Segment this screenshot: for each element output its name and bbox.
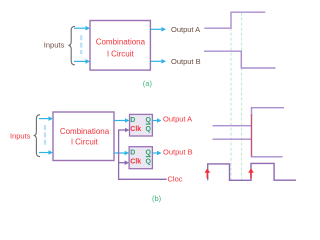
waveform output B (a) [204,51,276,68]
clock-edge marker dashed line 2 [241,13,243,181]
wire U2 to U4 D input [114,151,129,156]
waveform output A (b) [213,125,252,127]
wire input 1 (b) [39,116,53,121]
input brace (a) [68,26,75,65]
combinational circuit block U2 (b) [53,112,114,161]
svg-text:Inputs: Inputs [44,40,65,49]
combinational circuit block U1 (a) [90,21,150,71]
wire U2 to U3 D input [114,118,130,123]
svg-text:Inputs: Inputs [10,132,31,141]
wire input 1 (a) [74,26,90,31]
svg-text:Combinationa: Combinationa [96,38,146,47]
waveform output A (a) [204,12,265,28]
svg-text:Q: Q [146,149,152,156]
input brace (b) [34,115,40,157]
svg-text:Output A: Output A [163,114,192,123]
svg-text:(a): (a) [143,79,153,88]
wire clock to U3 Clk [118,128,130,133]
svg-text:l Circuit: l Circuit [107,49,134,58]
wire input 2 (a) [74,59,90,64]
svg-text:Clk: Clk [130,158,141,165]
svg-text:Cloc: Cloc [168,175,183,184]
wire U3 Q to output A [152,118,161,123]
wire output B (a) [151,59,166,64]
waveform output B (b) [213,138,252,140]
clock edge red arrow 2 [248,168,254,178]
svg-text:Q: Q [146,126,152,133]
svg-text:(b): (b) [152,194,162,203]
svg-text:Output A: Output A [171,25,200,34]
input bus dashed line (b) [44,125,46,146]
wire U4 Q to output B [152,151,161,156]
input bus dashed line (a) [80,35,82,54]
flip-flop U4 (b) [129,147,152,169]
wire clock to U4 Clk [118,160,129,165]
svg-text:D: D [130,117,135,124]
wire output A (a) [151,27,166,32]
svg-text:Output B: Output B [163,148,193,157]
svg-text:D: D [130,149,135,156]
wire input 2 (b) [39,150,53,155]
waveform step lower (b) [252,156,283,158]
clock-edge marker dashed line 1 [230,13,232,181]
svg-text:Clk: Clk [130,126,141,133]
svg-text:l Circuit: l Circuit [71,137,98,146]
flip-flop U3 (b) [130,114,153,136]
svg-text:Q: Q [146,159,152,166]
clock edge red arrow 1 [205,168,211,178]
svg-text:Combinationa: Combinationa [60,127,110,136]
svg-text:Q: Q [146,117,152,124]
transition marker line (b) [251,115,253,158]
clock distribution wire [119,130,167,179]
waveform step upper (b) [252,108,285,116]
svg-text:Output B: Output B [171,57,201,66]
waveform clock (b) [208,163,296,180]
